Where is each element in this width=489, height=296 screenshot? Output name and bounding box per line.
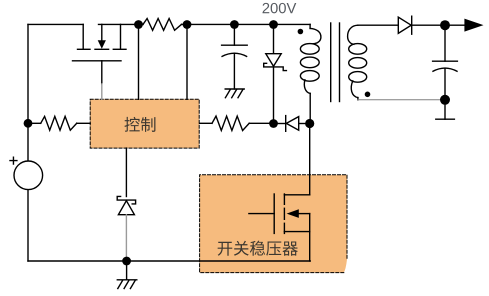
zener diode D1 [264, 25, 287, 120]
transistor Q2 source lead [284, 231, 309, 233]
wire from node A down to control box [138, 25, 140, 100]
resistor R2 left [28, 116, 90, 130]
wire top rail main segment (left of R1) [99, 23, 144, 25]
node junction dot H (bottom) [122, 257, 131, 266]
wire control box to zener D3 [125, 148, 127, 196]
wire top rail left segment [28, 23, 83, 25]
node junction dot E (left) [24, 119, 33, 128]
regulator box U2 [200, 175, 347, 273]
node junction dot J [440, 95, 450, 105]
output arrow [445, 19, 484, 32]
transformer T1 primary polarity dot [298, 29, 304, 35]
transistor Q2 gate bar [273, 194, 275, 233]
transistor Q1 gate plate [73, 60, 122, 62]
transistor Q1 source terminal [113, 24, 126, 49]
node junction dot F [269, 119, 278, 128]
node junction dot C [230, 20, 239, 29]
transformer T1 primary winding [300, 24, 321, 119]
resistor R3 right of control box [200, 116, 270, 130]
wire from node B down to control box [186, 25, 188, 100]
diode D2 (points left) [278, 116, 305, 132]
wire node G to Q2 drain [309, 124, 311, 195]
transformer T1 secondary polarity dot [365, 92, 371, 98]
zener diode D3 [117, 196, 135, 256]
transistor Q2 drain lead [284, 194, 309, 196]
wire left vertical upper [27, 24, 29, 161]
node junction dot A [134, 20, 143, 29]
transistor Q1 body arrow [95, 24, 109, 49]
node junction dot B [183, 20, 192, 29]
ground G2 bottom [117, 261, 137, 289]
node junction dot D (200V) [269, 20, 278, 29]
wire Q2 source/body to bottom rail [309, 214, 311, 261]
regulator box U2 label 开关稳压器 [218, 241, 298, 256]
transistor Q2 body arrow [287, 209, 310, 218]
transistor Q1 drain terminal [78, 24, 91, 49]
transistor Q2 channel segments [283, 194, 285, 233]
diode D4 output [398, 16, 445, 34]
wire left vertical lower [27, 190, 29, 262]
transformer T1 core [331, 23, 340, 102]
node junction dot G [305, 119, 314, 128]
node junction dot I (output) [440, 20, 450, 30]
wire bottom rail [28, 260, 310, 262]
label 200V [263, 3, 297, 13]
capacitor C2 [433, 25, 458, 100]
ground terminal G3 [436, 100, 455, 119]
wire top rail main segment (right of R1) [182, 23, 311, 25]
control box U1 [90, 99, 199, 148]
voltage source V1 [10, 157, 43, 189]
ground G1 under C1 [225, 89, 244, 98]
transistor Q1 gate lead [101, 61, 103, 100]
transistor Q2 gate lead stub [249, 213, 274, 215]
transformer T1 secondary winding [348, 25, 367, 100]
wire secondary bottom to node J [358, 99, 445, 101]
wire secondary top to diode D4 [358, 24, 399, 26]
control box U1 label 控制 [125, 117, 156, 132]
resistor R1 top [143, 19, 182, 31]
capacitor C1 [222, 25, 248, 90]
